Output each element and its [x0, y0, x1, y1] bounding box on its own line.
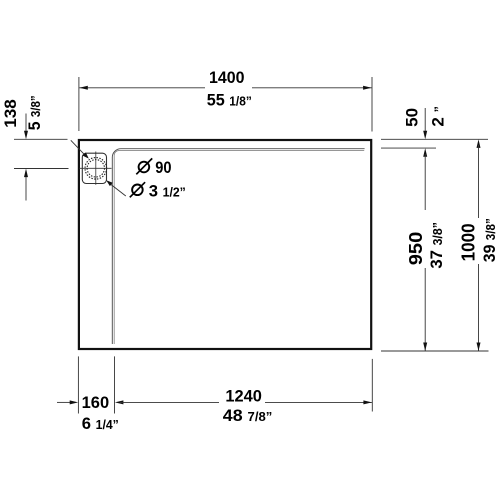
label diameter 3 1/2 symbol — [130, 182, 145, 197]
svg-text:1000: 1000 — [459, 223, 479, 261]
svg-text:950: 950 — [405, 232, 426, 266]
dim 1400 extension line left — [78, 77, 80, 131]
drain centerline vertical — [95, 152, 97, 185]
svg-text:138: 138 — [1, 99, 20, 128]
tray outline — [79, 140, 371, 349]
dim 50 line — [423, 108, 427, 139]
drain box — [82, 153, 106, 183]
drain circle dashed — [85, 158, 107, 180]
dim 138 lower arrow — [24, 169, 28, 201]
svg-text:50: 50 — [403, 108, 422, 127]
rim inner line inner — [114, 150, 364, 344]
dim 138 upper arrow — [24, 114, 28, 140]
dim 1400 line right segment — [252, 87, 372, 89]
leader to drain solid circle — [71, 140, 89, 158]
dim 1400 arrow right — [363, 86, 372, 90]
svg-text:1400: 1400 — [209, 68, 245, 87]
drain circle solid — [87, 160, 104, 177]
right extension line bottom level — [381, 350, 489, 352]
right extension line top level — [381, 138, 488, 140]
dim 1400 line left segment — [79, 87, 205, 89]
rim inner line outer — [112, 149, 364, 344]
svg-text:160: 160 — [82, 393, 110, 412]
dim 1000 line — [477, 139, 481, 351]
bottom extension line mid — [114, 356, 116, 413]
svg-text:90: 90 — [155, 158, 171, 177]
dim 1400 arrow left — [79, 86, 88, 90]
dim 160 outside arrow — [57, 400, 78, 404]
dim 138 extension line bottom — [14, 168, 69, 170]
dim 1240 line with left arrow at mid extension — [115, 400, 372, 404]
right extension line rim level — [381, 147, 436, 149]
label diameter 90 symbol — [136, 158, 152, 174]
leader to drain dashed circle — [106, 180, 126, 196]
bottom extension line left — [77, 356, 79, 413]
drain centerline horizontal — [80, 167, 112, 169]
svg-text:1240: 1240 — [225, 387, 262, 406]
dim 950 line — [423, 148, 427, 351]
dim 1400 extension line right — [371, 77, 373, 132]
dim 138 extension line top — [14, 138, 68, 140]
bottom extension line right — [371, 359, 373, 412]
